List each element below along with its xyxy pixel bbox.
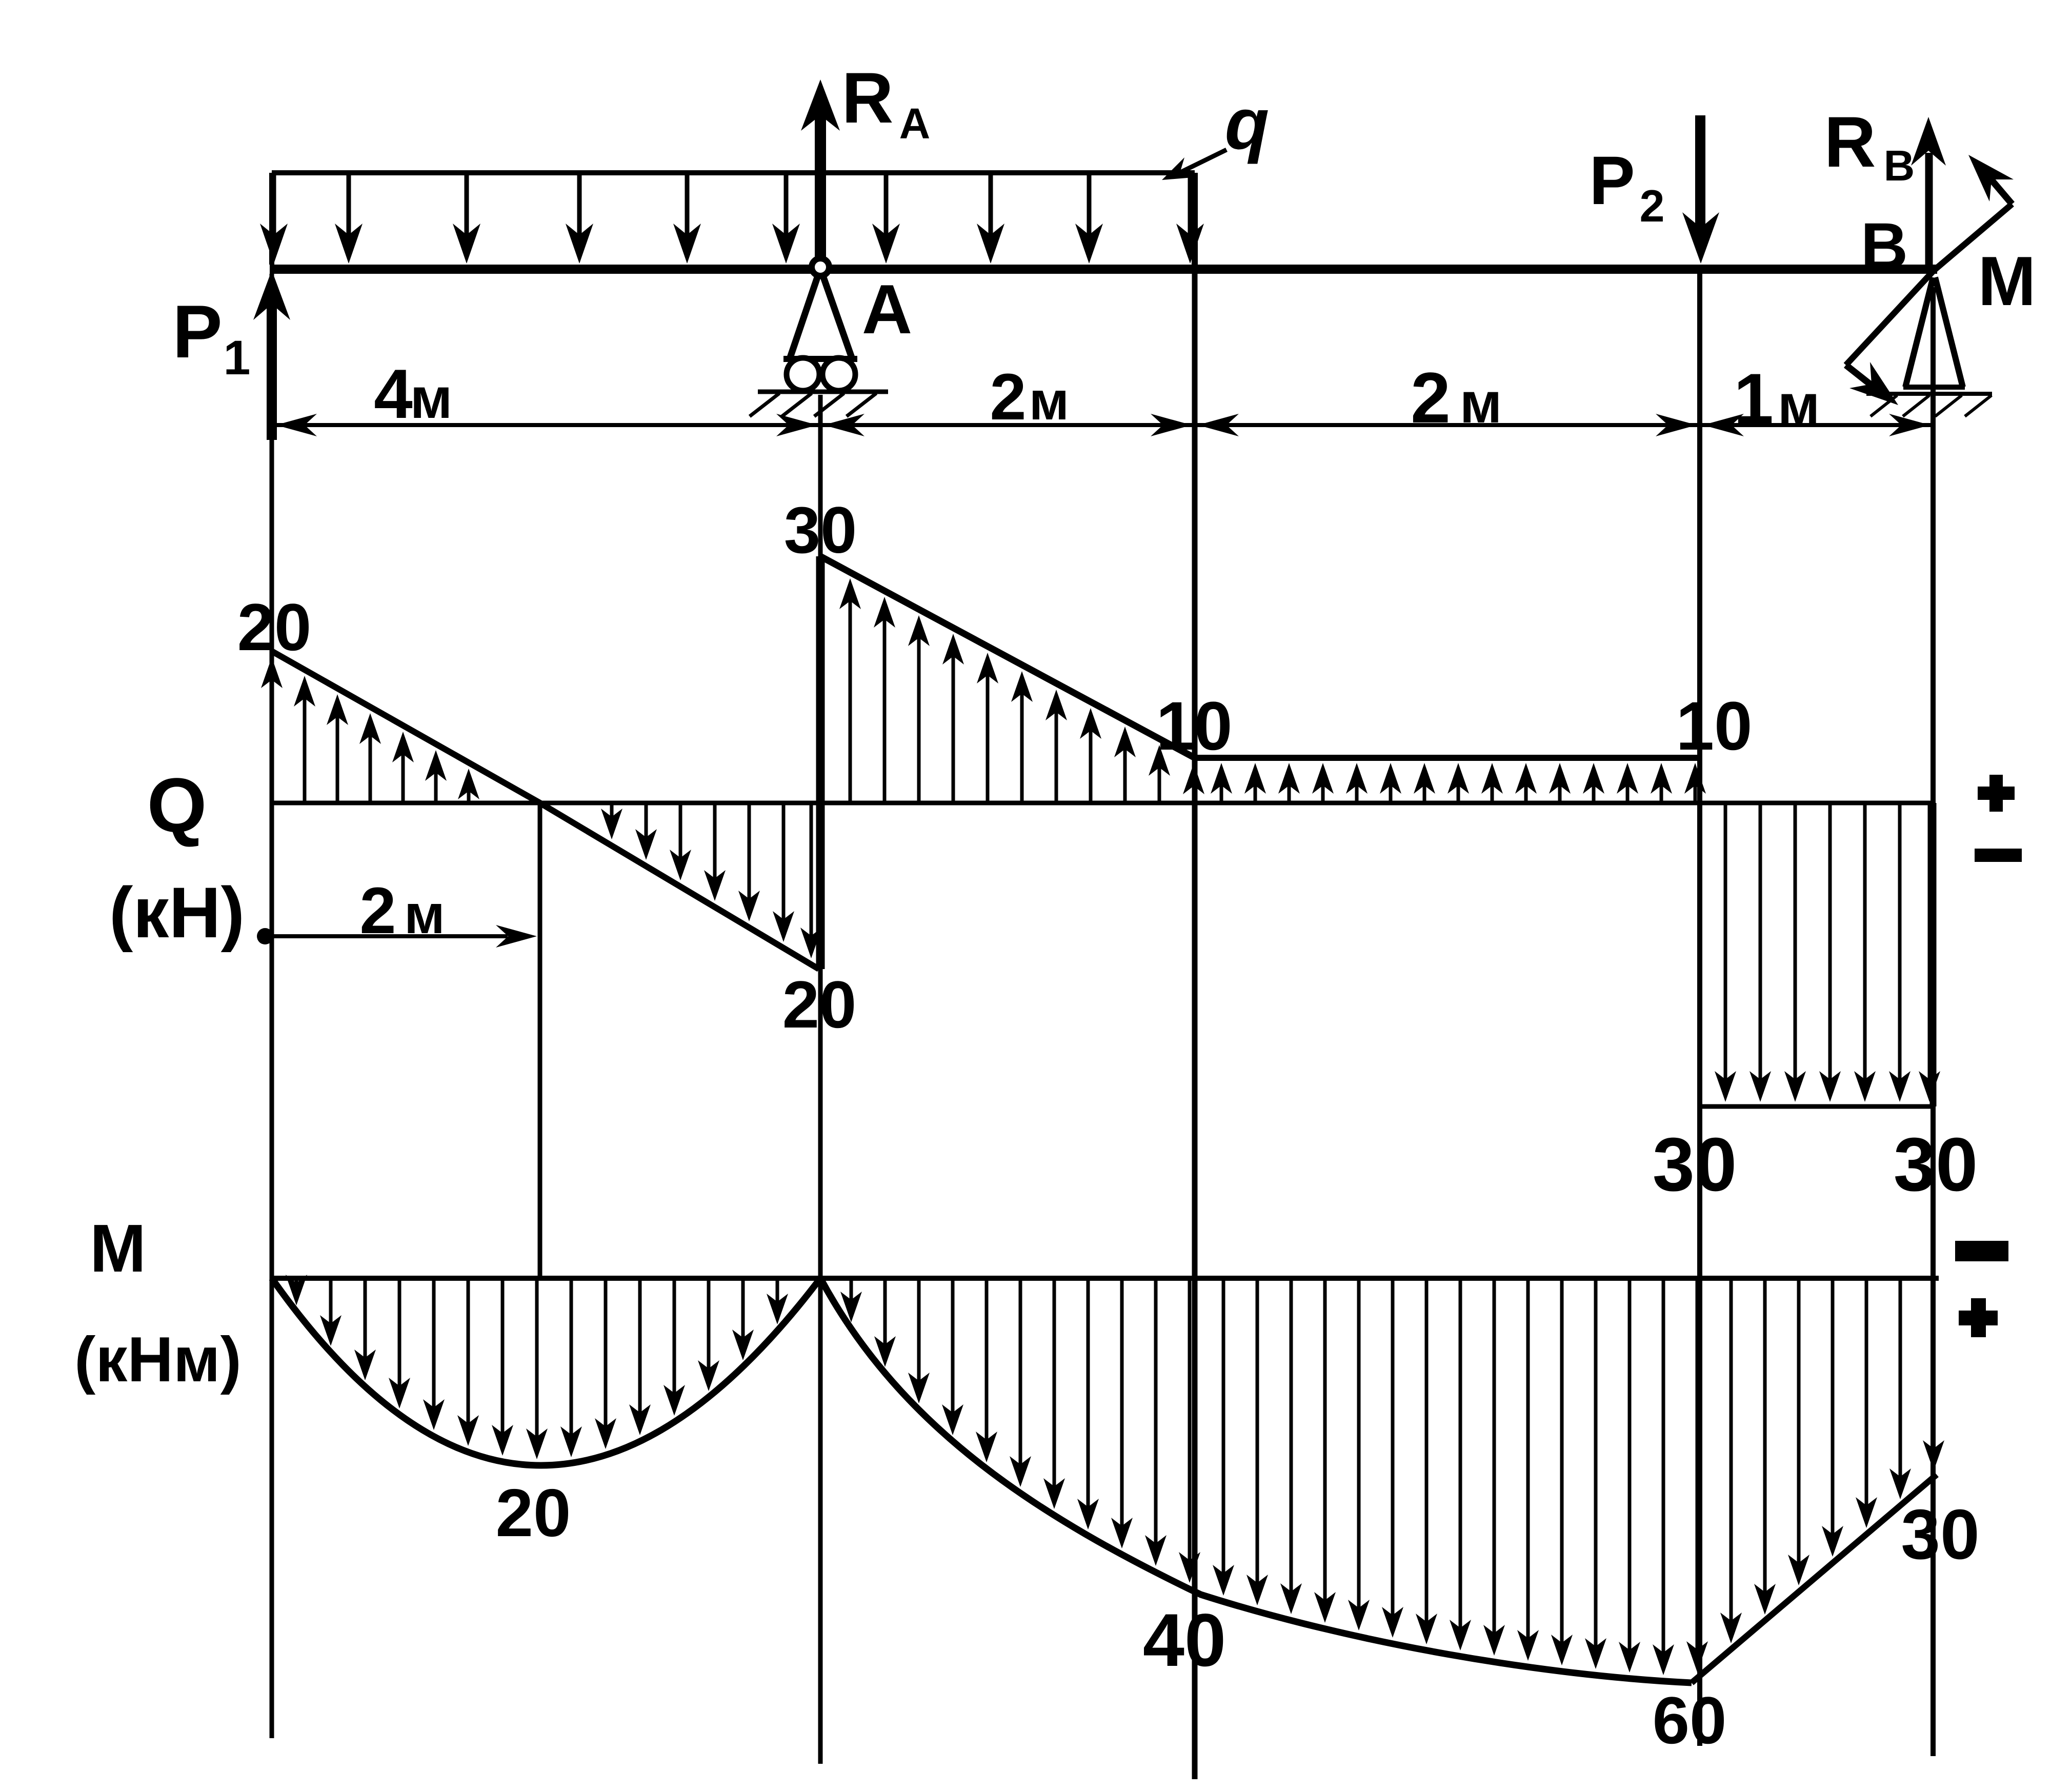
svg-text:R: R [841, 57, 893, 138]
svg-text:10: 10 [1156, 688, 1232, 764]
Q line from +20 to -20 [272, 651, 819, 969]
Q baseline [272, 801, 1934, 806]
distributed load q arrows [260, 175, 1204, 264]
svg-text:2: 2 [359, 874, 396, 948]
svg-text:2: 2 [1640, 180, 1665, 231]
svg-text:40: 40 [1143, 1598, 1226, 1682]
force P1 arrow (up, at left end) [267, 303, 277, 440]
moment M bent arrow upper branch [1934, 204, 2012, 270]
svg-text:2: 2 [1411, 357, 1451, 438]
svg-text:M: M [1978, 242, 2036, 320]
svg-text:10: 10 [1676, 688, 1752, 764]
Q line from +30 to +10 [820, 556, 1195, 758]
svg-text:20: 20 [782, 967, 857, 1042]
svg-text:M: M [90, 1211, 146, 1286]
svg-text:м: м [1460, 371, 1502, 435]
Q hatch arrows positive left region [261, 657, 479, 802]
Q hatch arrows negative left region [601, 804, 822, 958]
support A: rollers [787, 358, 819, 391]
svg-text:м: м [1778, 373, 1820, 437]
svg-text:(кН): (кН) [109, 872, 245, 953]
M sign plus [1959, 1311, 1998, 1325]
svg-text:30: 30 [1901, 1495, 1980, 1574]
support A: ground hatching [750, 393, 876, 416]
svg-text:20: 20 [237, 590, 312, 665]
svg-text:A: A [899, 99, 931, 148]
distributed load q top line [272, 170, 1195, 175]
support B: triangle [1905, 277, 1963, 387]
M curve right of A [820, 1278, 1692, 1683]
Q 2m dimension line [269, 934, 508, 938]
M hatch arrows left span [286, 1275, 788, 1459]
reference line at B [1931, 287, 1936, 1756]
reference line at support A [818, 395, 823, 1764]
Q hatch arrows plateau region [1211, 763, 1706, 802]
M sign minus [1955, 1241, 2008, 1261]
Q sign minus [1975, 849, 2022, 862]
force P2 arrow (down) [1695, 115, 1705, 232]
beam [270, 265, 1937, 274]
svg-text:P: P [172, 290, 222, 373]
reference line at q end [1192, 274, 1198, 1779]
svg-text:м: м [410, 366, 453, 430]
svg-text:A: A [862, 270, 912, 348]
Q drop at P2 [1697, 758, 1702, 1106]
distributed load left edge [269, 173, 274, 265]
svg-text:м: м [404, 883, 445, 945]
dimension arrowheads [276, 414, 1930, 436]
Q hatch arrows positive region after A [839, 578, 1204, 802]
leader line from q label [1172, 150, 1226, 176]
svg-text:q: q [1225, 83, 1270, 165]
svg-text:R: R [1824, 102, 1876, 182]
Q jump at A [816, 556, 825, 969]
M line from 60 up to 30 at B [1692, 1475, 1937, 1683]
svg-text:2: 2 [990, 360, 1026, 434]
moment M bent arrow lower branch [1846, 271, 1933, 365]
svg-text:60: 60 [1653, 1683, 1727, 1758]
svg-text:(кНм): (кНм) [74, 1324, 242, 1395]
svg-text:20: 20 [496, 1475, 571, 1551]
support B: ground line [1866, 392, 1992, 396]
M baseline [272, 1276, 1939, 1281]
reference line at P2 [1697, 274, 1702, 1746]
svg-text:1: 1 [1734, 358, 1774, 439]
svg-text:4: 4 [374, 355, 413, 433]
Q sign plus [1978, 787, 2015, 800]
svg-text:1: 1 [224, 331, 251, 385]
support A: triangle [790, 276, 852, 359]
reaction RA arrow (up, at support A) [815, 115, 826, 266]
svg-text:P: P [1589, 143, 1635, 219]
support B: ground hatching [1871, 395, 1992, 416]
dimension line [272, 423, 1931, 427]
distributed load right edge [1192, 173, 1198, 265]
svg-text:30: 30 [784, 494, 857, 567]
Q right edge at B [1930, 803, 1937, 1106]
reference line at 2m point [538, 803, 542, 1278]
Q hatch arrows negative region before B [1715, 804, 1940, 1102]
svg-text:м: м [1029, 371, 1069, 431]
support A: ground line [758, 390, 888, 394]
svg-text:30: 30 [1653, 1122, 1737, 1207]
svg-text:30: 30 [1894, 1122, 1978, 1207]
Q plateau +10 [1195, 755, 1699, 761]
M parabola left span [272, 1278, 820, 1465]
svg-text:B: B [1861, 210, 1908, 283]
reference line at left end [270, 274, 274, 1738]
svg-text:B: B [1884, 142, 1915, 190]
Q 2m dimension dot [257, 928, 273, 944]
reaction RB arrow (up, at support B) [1925, 153, 1933, 266]
Q bottom line -30 [1700, 1104, 1933, 1109]
svg-text:Q: Q [147, 762, 207, 848]
support A: pin circle [812, 258, 829, 276]
M hatch arrows right span [840, 1280, 1944, 1675]
